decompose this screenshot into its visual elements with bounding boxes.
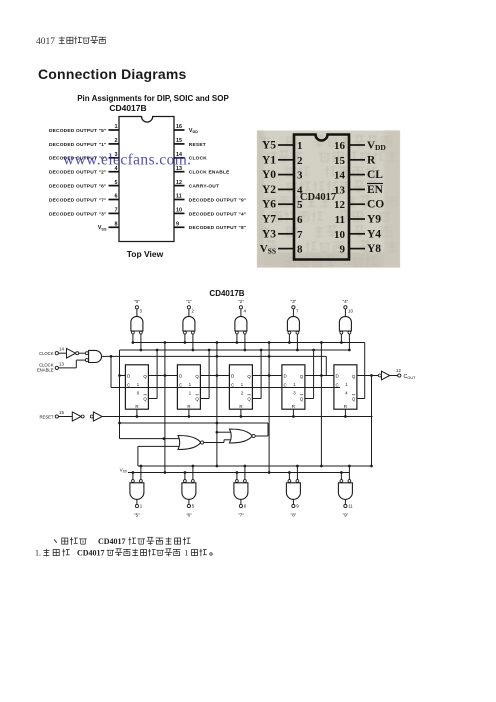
wire tap gap 2 to bus (216, 341, 219, 375)
wire NOR2 out feedback to FF1 D (118, 422, 268, 436)
pin 16 label (189, 128, 198, 134)
svg-text:D: D (127, 374, 130, 379)
reset bus (102, 416, 372, 418)
scan pin 9 number (340, 244, 346, 256)
pin 6 label (49, 197, 107, 203)
pin 14 label (189, 156, 207, 162)
scan pin 14 stub (349, 174, 365, 176)
scan pin 9 label Y8 (367, 243, 381, 255)
svg-text:4: 4 (297, 184, 303, 196)
svg-text:7: 7 (297, 229, 303, 241)
D flip-flop FF2 (177, 365, 200, 409)
wire FF2 Qbar up to bus H2 (200, 349, 210, 399)
scan pin 13 stub (349, 188, 365, 190)
svg-text:11: 11 (176, 194, 182, 200)
svg-text:13: 13 (59, 361, 64, 366)
wire tap gap 2 down to bottom bus (216, 376, 219, 468)
pin 10 label (189, 211, 247, 217)
D flip-flop FF5 (334, 365, 357, 409)
watermark www.elecfans.com (63, 152, 191, 169)
wire FF2 Q to FF3 D (200, 374, 229, 377)
pin 5 label (49, 184, 107, 190)
wire clock enable to AND gate (58, 360, 85, 368)
svg-text:10: 10 (176, 208, 182, 214)
svg-text:10: 10 (334, 229, 346, 241)
svg-text:Y1: Y1 (262, 154, 276, 166)
wire gate "9" left input to B2 (340, 471, 343, 479)
pin 6 stub (left) (109, 194, 120, 200)
D flip-flop FF3 (229, 365, 252, 409)
scan pin 10 number (334, 229, 346, 241)
svg-text:Y5: Y5 (262, 140, 276, 152)
wire NOR2 input 2 (216, 431, 231, 434)
scan pin 7 label Y3 (262, 228, 276, 240)
scan pin 15 stub (349, 159, 365, 161)
svg-text:CLOCK ENABLE: CLOCK ENABLE (189, 170, 230, 176)
svg-text:1: 1 (297, 140, 303, 152)
svg-text:16: 16 (176, 124, 182, 130)
NOR gate N1 (178, 436, 204, 450)
decoded output "7" AND gate, pin 6 (234, 480, 248, 518)
pin 8 label (98, 225, 107, 231)
scan pin 13 label EN (367, 184, 384, 196)
scan pin 2 number (297, 155, 303, 167)
clock inverter (67, 348, 79, 358)
svg-text:"6": "6" (186, 513, 192, 518)
subtitle Pin Assignments for DIP, SOIC and SOP (0, 94, 306, 103)
svg-text:R: R (292, 404, 295, 409)
pin 15 label (189, 142, 206, 148)
svg-text:5: 5 (115, 180, 118, 186)
pin 12 label (189, 184, 219, 190)
svg-text:DECODED OUTPUT "7": DECODED OUTPUT "7" (49, 197, 107, 203)
svg-text:8: 8 (297, 244, 303, 256)
ghost print-through characters (260, 136, 398, 268)
svg-text:DECODED OUTPUT "9": DECODED OUTPUT "9" (189, 197, 247, 203)
svg-text:"0": "0" (134, 299, 140, 304)
wire FF5 reset stub (344, 409, 347, 418)
svg-text:3: 3 (140, 309, 143, 314)
scan pin 12 stub (349, 203, 365, 205)
scan pin 6 number (297, 214, 303, 226)
svg-text:CD4017B: CD4017B (209, 289, 244, 298)
pin 5 stub (left) (109, 180, 120, 186)
wire gate5 left input to bus H1 (340, 334, 343, 344)
svg-text:Q: Q (352, 374, 356, 379)
svg-text:EN: EN (367, 184, 384, 196)
scan pin 16 stub (349, 144, 365, 146)
pin 16 stub (right) (174, 124, 185, 130)
wire tap gap 3 down to bottom bus (268, 376, 271, 474)
pin 7 label (49, 211, 107, 217)
decoded output "8" AND gate, pin 9 (286, 480, 300, 518)
svg-text:2: 2 (297, 155, 303, 167)
wire gate5 right stub to B2 (348, 349, 350, 351)
wire FF1 reset stub (136, 409, 139, 418)
svg-text:C: C (231, 383, 234, 388)
wire tap gap 3 to bus (268, 341, 271, 375)
svg-text:6: 6 (115, 194, 118, 200)
svg-text:DECODED OUTPUT "6": DECODED OUTPUT "6" (49, 184, 107, 190)
svg-text:Q: Q (300, 374, 304, 379)
wire gate "9" right input to B1 (348, 465, 351, 480)
pin 7 stub (left) (109, 208, 120, 214)
pin 13 label (189, 170, 230, 176)
heading Connection Diagrams (38, 66, 187, 82)
svg-text:R: R (239, 404, 242, 409)
svg-text:CLOCK: CLOCK (39, 351, 54, 356)
decoded output "5" AND gate, pin 1 (130, 480, 144, 518)
scanned IC body CD4017 (294, 135, 349, 260)
wire FF3 Q to FF4 D (252, 374, 282, 377)
wire clock down to C row (111, 356, 340, 387)
svg-text:Q: Q (247, 374, 251, 379)
svg-text:"9": "9" (342, 513, 348, 518)
svg-text:9: 9 (176, 222, 179, 228)
pin 11 stub (right) (174, 194, 185, 200)
wire FF5 Q to carry buffer (357, 374, 378, 377)
wire NOR1 inputs (120, 437, 180, 466)
svg-text:15: 15 (334, 155, 346, 167)
scan pin 5 number (297, 199, 303, 211)
svg-text:1: 1 (137, 382, 140, 387)
wire gate3 right input to bus H2 (244, 334, 247, 351)
svg-text:C: C (179, 383, 182, 388)
scan pin 3 label Y0 (262, 169, 276, 181)
svg-text:D: D (179, 374, 182, 379)
wire FF4 Q to FF5 D (305, 374, 334, 377)
pin 3 label (49, 156, 107, 162)
CLOCK ENABLE input terminal pin 13 (37, 361, 64, 372)
svg-text:VDD: VDD (189, 128, 198, 134)
scan pin 5 stub (278, 203, 294, 205)
svg-text:"2": "2" (238, 299, 244, 304)
pin 1 stub (left) (109, 124, 120, 130)
svg-text:11: 11 (335, 214, 345, 226)
scan pin 14 number (334, 170, 346, 182)
svg-text:15: 15 (176, 138, 182, 144)
bottom bus B1 (138, 465, 373, 468)
wire gate2 right input to bus H2 (192, 334, 195, 351)
svg-text:Y6: Y6 (262, 199, 276, 211)
bus H1 (133, 342, 365, 344)
svg-text:12: 12 (396, 368, 401, 373)
svg-text:Y0: Y0 (262, 169, 276, 181)
svg-text:1: 1 (189, 391, 192, 396)
svg-text:13: 13 (334, 184, 346, 196)
clock gating AND gate (85, 350, 101, 362)
pin 11 label (189, 197, 247, 203)
svg-text:DECODED OUTPUT "3": DECODED OUTPUT "3" (49, 211, 107, 217)
svg-text:"4": "4" (342, 299, 348, 304)
svg-text:D: D (336, 374, 339, 379)
wire H1 wrap down right side to FF5 Qbar (357, 343, 365, 399)
svg-text:C: C (284, 383, 287, 388)
wire gate "8" right input to B1 (296, 465, 299, 480)
svg-text:15: 15 (59, 410, 64, 415)
svg-text:R: R (187, 404, 190, 409)
subtitle CD4017B (0, 103, 256, 113)
pin 2 label (49, 142, 107, 148)
svg-text:RESET: RESET (189, 142, 206, 148)
svg-text:DECODED OUTPUT "5": DECODED OUTPUT "5" (49, 128, 107, 134)
svg-text:www.elecfans.com.: www.elecfans.com. (63, 152, 191, 169)
svg-text:DECODED OUTPUT "1": DECODED OUTPUT "1" (49, 142, 107, 148)
D flip-flop FF1 (125, 365, 148, 409)
pin 2 stub (left) (109, 138, 120, 144)
wire FF2 reset stub (188, 409, 191, 418)
pin 15 stub (right) (174, 138, 185, 144)
svg-text:2: 2 (115, 138, 118, 144)
svg-text:7: 7 (115, 208, 118, 214)
scan pin 11 label Y9 (367, 214, 381, 226)
bus H2 (120, 349, 350, 351)
scan pin 2 stub (278, 159, 294, 161)
svg-text:1: 1 (115, 124, 118, 130)
svg-text:3: 3 (297, 170, 303, 182)
wire tap gap 4 down to bottom bus (320, 376, 323, 468)
wire NOR1 out to NOR2 (204, 440, 231, 443)
decoded output "1" AND gate, pin 2 (183, 299, 195, 334)
svg-text:1: 1 (140, 504, 143, 509)
svg-text:Q: Q (247, 396, 251, 401)
pin 10 stub (right) (174, 208, 185, 214)
svg-text:Q: Q (195, 374, 199, 379)
NOR gate N2 (230, 429, 256, 443)
scan pin 9 stub (349, 248, 365, 250)
pin 1 label (49, 128, 107, 134)
decoded output "3" AND gate, pin 7 (287, 299, 299, 334)
svg-text:6: 6 (297, 214, 303, 226)
svg-text:14: 14 (334, 170, 346, 182)
pin 9 stub (right) (174, 222, 185, 228)
scan pin 4 label Y2 (262, 184, 276, 196)
pin 4 label (49, 170, 107, 176)
svg-text:11: 11 (348, 504, 353, 509)
wire FF1 Qbar up to bus H2 (148, 349, 158, 399)
scan pin 7 stub (278, 233, 294, 235)
reset buffer 2 (90, 412, 102, 421)
scan pin 15 label R (367, 154, 376, 166)
svg-text:"3": "3" (290, 299, 296, 304)
svg-text:5: 5 (192, 504, 195, 509)
svg-text:CO: CO (367, 199, 384, 211)
scanned IC label CD4017 (300, 192, 336, 203)
svg-text:DECODED OUTPUT "4": DECODED OUTPUT "4" (189, 211, 247, 217)
svg-text:1: 1 (189, 382, 192, 387)
svg-text:8: 8 (115, 222, 118, 228)
carry output buffer (378, 371, 397, 380)
svg-text:Y7: Y7 (262, 214, 276, 226)
svg-text:ENABLE: ENABLE (37, 368, 54, 373)
svg-text:R: R (367, 154, 376, 166)
svg-text:Q: Q (352, 396, 356, 401)
wire gate2 left input to bus H1 (184, 334, 187, 344)
scan pin 1 stub (278, 144, 294, 146)
reset buffer 1 (58, 412, 84, 421)
svg-text:R: R (344, 404, 347, 409)
wire gate "6" left input to B2 (184, 471, 187, 479)
svg-text:1: 1 (345, 382, 348, 387)
scan pin 2 label Y1 (262, 154, 276, 166)
svg-text:Q: Q (300, 396, 304, 401)
svg-text:6: 6 (244, 504, 247, 509)
svg-text:2: 2 (192, 309, 195, 314)
svg-text:2: 2 (241, 391, 244, 396)
scan pin 1 label Y5 (262, 140, 276, 152)
pin 8 stub (left) (109, 222, 120, 228)
scan pin 11 number (335, 214, 345, 226)
svg-text:C: C (127, 383, 130, 388)
wire gate "8" left input to B2 (288, 471, 291, 479)
scanned pinout image background (257, 131, 400, 268)
svg-text:DECODED OUTPUT "8": DECODED OUTPUT "8" (189, 225, 247, 231)
svg-text:1: 1 (241, 382, 244, 387)
svg-text:Y3: Y3 (262, 228, 276, 240)
scan pin 10 label Y4 (367, 228, 381, 240)
svg-text:7: 7 (296, 309, 299, 314)
svg-text:CARRY-OUT: CARRY-OUT (189, 184, 219, 190)
svg-text:Top View: Top View (127, 249, 164, 259)
decoded output "4" AND gate, pin 10 (339, 299, 353, 334)
wire FF1 Q to FF2 D (148, 374, 177, 377)
svg-text:Q: Q (195, 396, 199, 401)
scan pin 15 number (334, 155, 346, 167)
svg-text:CLOCK: CLOCK (189, 156, 207, 162)
wire FF3 Qbar up to bus H2 (252, 349, 262, 399)
wire gate4 right input to bus H2 (296, 334, 299, 351)
decoded output "9" AND gate, pin 11 (338, 480, 353, 518)
svg-text:9: 9 (296, 504, 299, 509)
svg-text:CL: CL (367, 169, 383, 181)
scan pin 12 label CO (367, 199, 384, 211)
svg-text:C: C (336, 383, 339, 388)
wire gate1 right input to bus H2 (140, 334, 143, 351)
svg-text:"1": "1" (186, 299, 192, 304)
svg-text:12: 12 (334, 199, 346, 211)
svg-text:Y9: Y9 (367, 214, 381, 226)
wire gate4 left input to bus H1 (288, 334, 291, 344)
VSS label (120, 468, 127, 474)
RESET input terminal pin 15 (40, 410, 65, 419)
scan pin 14 label CL (367, 169, 383, 181)
bottom bus B2 (128, 472, 349, 474)
svg-text:Q: Q (143, 396, 147, 401)
svg-text:VSS: VSS (98, 225, 107, 231)
scan pin 7 number (297, 229, 303, 241)
svg-text:"5": "5" (134, 513, 140, 518)
wire clock terminal to inverter (58, 352, 66, 354)
D flip-flop FF4 (282, 365, 305, 409)
scan pin 16 label VDD (367, 140, 386, 153)
wire tap gap 1 to bus (164, 341, 167, 375)
svg-text:D: D (284, 374, 287, 379)
scan pin 8 number (297, 244, 303, 256)
wire H2 left end down to FF1 D and NOR1 input (118, 350, 125, 439)
svg-text:12: 12 (176, 180, 182, 186)
scan pin 6 label Y7 (262, 214, 276, 226)
scan pin 12 number (334, 199, 346, 211)
svg-text:Y2: Y2 (262, 184, 276, 196)
scan pin 4 number (297, 184, 303, 196)
scan pin 8 label VSS (260, 243, 276, 256)
svg-text:CD4017: CD4017 (300, 192, 336, 203)
svg-text:3: 3 (293, 391, 296, 396)
svg-text:"7": "7" (238, 513, 244, 518)
svg-text:COUT: COUT (404, 374, 417, 380)
scan pin 3 number (297, 170, 303, 182)
pin 9 label (189, 225, 247, 231)
svg-text:Y4: Y4 (367, 228, 381, 240)
svg-text:14: 14 (59, 347, 64, 352)
svg-text:16: 16 (334, 140, 346, 152)
svg-text:DECODED OUTPUT "2": DECODED OUTPUT "2" (49, 170, 107, 176)
wire gate "5" left input to B2 (132, 471, 135, 479)
wire gate "7" right input to B1 (244, 465, 247, 480)
scan pin 11 stub (349, 218, 365, 220)
pin 14 stub (right) (174, 152, 185, 158)
logic diagram title CD4017B (209, 289, 244, 298)
wire carry feedback down right side (371, 376, 373, 467)
pin 4 stub (left) (109, 166, 120, 172)
svg-text:5: 5 (297, 199, 303, 211)
wire clock AND output, junction (102, 355, 334, 375)
wire FF4 Qbar up to bus H2 (305, 349, 315, 399)
svg-text:10: 10 (348, 309, 353, 314)
decoded output "0" AND gate, pin 3 (131, 299, 143, 334)
svg-text:0: 0 (137, 391, 140, 396)
wire gate "6" right input to B1 (192, 465, 195, 480)
wire gate "5" right input to B1 (140, 465, 143, 480)
pin 12 stub (right) (174, 180, 185, 186)
svg-text:R: R (135, 404, 138, 409)
scan pin 8 stub (278, 248, 294, 250)
decoded output "2" AND gate, pin 4 (235, 299, 247, 334)
svg-text:Y8: Y8 (367, 243, 381, 255)
scan pin 4 stub (278, 188, 294, 190)
pin 13 stub (right) (174, 166, 185, 172)
scan pin 13 number (334, 184, 346, 196)
wire tap gap 1 down to bottom bus (164, 376, 167, 474)
wire FF4 reset stub (292, 409, 295, 418)
IC package outline CD4017B DIP top view (119, 117, 174, 242)
scan shading (257, 131, 400, 268)
svg-text:4: 4 (244, 309, 247, 314)
svg-text:Q: Q (143, 374, 147, 379)
wire gate "7" left input to B2 (236, 471, 239, 479)
svg-text:VSS: VSS (120, 468, 127, 474)
CARRY OUT terminal pin 12 (396, 368, 416, 380)
svg-text:9: 9 (340, 244, 346, 256)
wire inverter to clock NAND (79, 352, 86, 354)
svg-text:D: D (231, 374, 234, 379)
svg-text:"8": "8" (290, 513, 296, 518)
scan pin 1 number (297, 140, 303, 152)
pin 3 stub (left) (109, 152, 120, 158)
wire tap gap 4 to bus (320, 341, 323, 375)
svg-text:RESET: RESET (40, 414, 54, 419)
scan pin 3 stub (278, 174, 294, 176)
wire FF3 reset stub (240, 409, 243, 418)
scan pin 10 stub (349, 233, 365, 235)
wire gate3 left input to bus H1 (236, 334, 239, 344)
scan pin 16 number (334, 140, 346, 152)
caption Top View (127, 249, 164, 259)
scan pin 6 stub (278, 218, 294, 220)
CLOCK input terminal pin 14 (39, 347, 64, 356)
scan pin 5 label Y6 (262, 199, 276, 211)
decoded output "6" AND gate, pin 5 (182, 480, 196, 518)
